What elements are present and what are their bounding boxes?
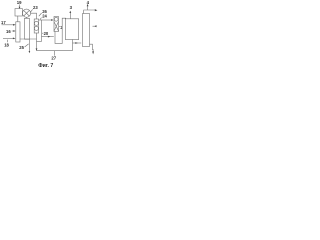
label 27 bbox=[51, 56, 56, 61]
leader 24 bbox=[40, 18, 41, 20]
wire 20 down line bbox=[41, 20, 43, 42]
label 19 bbox=[17, 0, 22, 5]
wire bottom drain line bbox=[37, 50, 73, 52]
svg-text:24: 24 bbox=[42, 14, 47, 19]
svg-text:18: 18 bbox=[4, 42, 9, 47]
wire into column 4 bbox=[73, 42, 82, 44]
scrubber 2 bbox=[54, 17, 59, 32]
wire scrubber bottom loop to separator top bbox=[55, 18, 66, 43]
wire fan outlet to trap vessel bbox=[31, 13, 37, 19]
arrow 19 into box bbox=[19, 5, 21, 9]
label 2 bbox=[60, 25, 63, 30]
svg-text:19: 19 bbox=[17, 0, 22, 5]
arrow 3 up bbox=[69, 12, 71, 19]
junction arrow at drain corner bbox=[36, 48, 38, 50]
wire 17 inlet bbox=[2, 24, 15, 26]
label 18 bbox=[4, 42, 9, 47]
fan/blower circle 23 bbox=[22, 9, 30, 17]
leader 2 bbox=[59, 26, 60, 28]
svg-text:16: 16 bbox=[6, 29, 11, 34]
leader 25 bbox=[25, 44, 29, 47]
arrow 4 up bbox=[87, 5, 89, 10]
separator vessel bbox=[65, 19, 78, 40]
wire box bottom to vessel bbox=[17, 16, 19, 22]
box (apparatus) at top left bbox=[15, 9, 22, 16]
leader 18 bbox=[7, 40, 9, 43]
label 23 bbox=[33, 5, 38, 10]
wire vessel to drain (crossing column) bbox=[20, 38, 37, 40]
wire separator bottom outlet bbox=[72, 40, 74, 51]
label 26 bbox=[42, 9, 47, 14]
svg-text:23: 23 bbox=[33, 5, 38, 10]
trap vessel 26 with floats bbox=[34, 19, 38, 33]
svg-text:20: 20 bbox=[44, 31, 49, 36]
wire side arrow into column right bbox=[93, 25, 96, 27]
label 3 bbox=[70, 5, 73, 10]
wire 16 inlet bbox=[12, 30, 14, 32]
label 24 bbox=[42, 14, 47, 19]
vessel (absorber) left bbox=[16, 22, 20, 42]
column under fan bbox=[25, 18, 30, 39]
svg-text:17: 17 bbox=[1, 20, 6, 25]
label 17 bbox=[1, 20, 6, 25]
label 20 bbox=[44, 31, 49, 36]
leader 27 bbox=[54, 51, 56, 56]
wire 20 join to drain bbox=[37, 41, 42, 43]
leader 26 bbox=[39, 13, 42, 16]
svg-text:27: 27 bbox=[51, 56, 56, 61]
wire trap bottom drain bbox=[36, 33, 38, 51]
leader 20 bbox=[42, 32, 43, 34]
leader 23 bbox=[30, 9, 32, 12]
caption bbox=[38, 63, 53, 69]
label 4 bbox=[87, 0, 90, 5]
wire 24 into scrubber 2 bbox=[42, 19, 53, 21]
svg-text:Фиг. 7: Фиг. 7 bbox=[38, 63, 53, 69]
column right bbox=[83, 14, 90, 47]
wire column bottom outlet down arrow bbox=[90, 44, 94, 52]
wire fan to column bbox=[26, 17, 28, 18]
label 25 bbox=[19, 45, 24, 50]
wire column top bbox=[84, 10, 96, 14]
wire 20 branch arrow to scrubber drain bbox=[42, 36, 54, 38]
wire trap outlet to node 24 bbox=[39, 19, 42, 21]
wire column drain down arrow 25 bbox=[28, 39, 30, 52]
label 16 bbox=[6, 29, 11, 34]
svg-text:25: 25 bbox=[19, 45, 24, 50]
wire 18 inlet bbox=[3, 37, 14, 39]
